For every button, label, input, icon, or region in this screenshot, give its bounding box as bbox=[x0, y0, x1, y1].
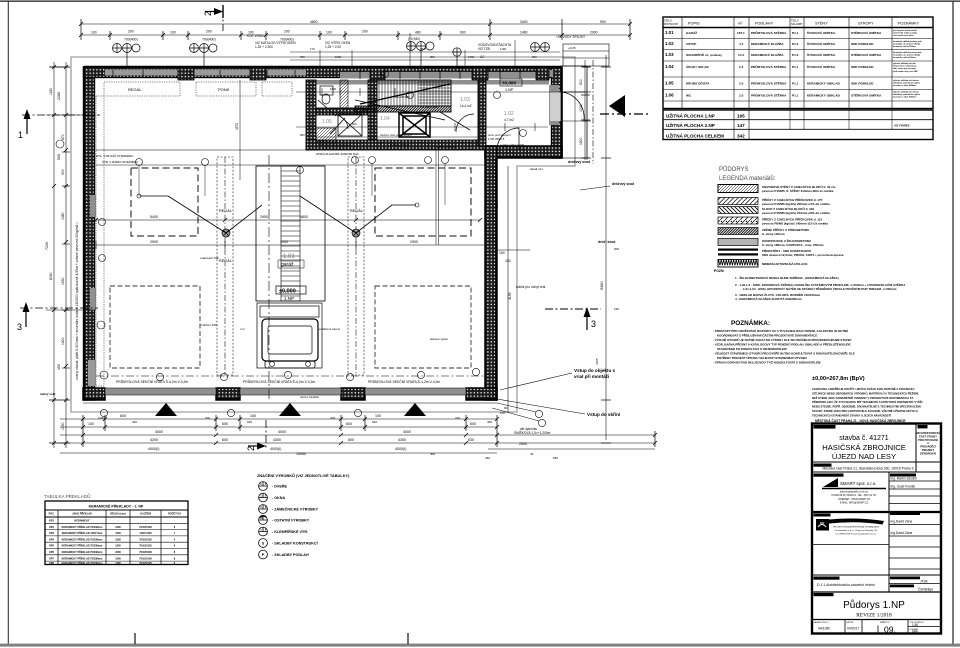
svg-text:14,4 m2: 14,4 m2 bbox=[460, 104, 472, 108]
slope lines to drain right bbox=[300, 196, 416, 233]
svg-text:700: 700 bbox=[455, 416, 460, 420]
svg-text:1.02: 1.02 bbox=[665, 41, 674, 46]
svg-text:950: 950 bbox=[553, 456, 558, 460]
section mark 1 left bbox=[18, 109, 100, 140]
svg-text:MINERÁLNÍ TEPELNÁ IZOLACE: MINERÁLNÍ TEPELNÁ IZOLACE bbox=[762, 261, 808, 266]
svg-text:1.03: 1.03 bbox=[460, 97, 470, 103]
svg-text:1.01: 1.01 bbox=[283, 254, 295, 260]
svg-text:460: 460 bbox=[485, 456, 490, 460]
svg-text:150: 150 bbox=[614, 307, 619, 311]
svg-text:1.02: 1.02 bbox=[504, 111, 514, 117]
svg-text:460: 460 bbox=[487, 420, 492, 424]
svg-text:UŽITNÁ PLOCHA 1.NP: UŽITNÁ PLOCHA 1.NP bbox=[666, 112, 715, 119]
svg-text:630: 630 bbox=[372, 420, 377, 424]
svg-text:1.04: 1.04 bbox=[380, 116, 390, 122]
svg-text:600: 600 bbox=[352, 122, 357, 126]
svg-text:úschovna kolys: úschovna kolys bbox=[436, 145, 457, 149]
svg-text:5400: 5400 bbox=[150, 215, 158, 219]
svg-text:700(400): 700(400) bbox=[124, 38, 138, 42]
legend texts bbox=[762, 184, 844, 266]
room label 1.01 garáž bbox=[283, 254, 295, 260]
interior wall between small rooms and stairs bbox=[368, 80, 377, 140]
svg-text:600: 600 bbox=[222, 438, 228, 442]
svg-text:4000(I): 4000(I) bbox=[148, 447, 159, 451]
staircase flight rail diagonal bbox=[360, 84, 450, 104]
right dimension vertical line 9360 bbox=[605, 55, 607, 440]
svg-text:2900: 2900 bbox=[410, 240, 418, 244]
svg-text:2500: 2500 bbox=[519, 442, 527, 446]
svg-text:SPRCHA, mytí pod stropem: SPRCHA, mytí pod stropem bbox=[318, 143, 350, 147]
svg-text:4200: 4200 bbox=[150, 438, 158, 442]
svg-text:výlevka, obklady stěn keram.: výlevka, obklady stěn keram. bbox=[893, 79, 920, 82]
garage door sill 1 bbox=[105, 388, 216, 395]
svg-text:1000: 1000 bbox=[115, 526, 121, 529]
svg-text:(+0,940): (+0,940) bbox=[408, 37, 420, 41]
entrance door opening white bbox=[550, 92, 561, 121]
top wall hatch piers between windows bbox=[370, 67, 385, 80]
section mark 2 top bbox=[203, 5, 223, 32]
svg-text:PODLAHY: PODLAHY bbox=[755, 22, 774, 26]
bottom wall pier 2 bbox=[216, 388, 240, 400]
svg-text:KERAMICKÝ: KERAMICKÝ bbox=[74, 520, 89, 523]
svg-text:SMART spol. s.r.o.: SMART spol. s.r.o. bbox=[840, 481, 876, 486]
svg-text:1,25 + 2,300: 1,25 + 2,300 bbox=[255, 45, 273, 49]
svg-text:2: 2 bbox=[203, 11, 213, 16]
svg-text:úschov. kolo pod stropem: úschov. kolo pod stropem bbox=[380, 133, 412, 137]
svg-text:870: 870 bbox=[61, 134, 65, 140]
svg-text:1190: 1190 bbox=[500, 47, 506, 51]
bottom wall pier 1 bbox=[83, 388, 105, 400]
svg-text:+ODVODY SPOJKY: +ODVODY SPOJKY bbox=[556, 35, 586, 39]
svg-text:ÚKLID / SKLAD: ÚKLID / SKLAD bbox=[686, 64, 709, 69]
floor drain left bbox=[222, 229, 230, 237]
axis dash-dot through tower bbox=[268, 155, 270, 400]
svg-text:SDK PODHLED: SDK PODHLED bbox=[851, 82, 874, 86]
svg-text:200: 200 bbox=[362, 30, 368, 34]
legend swatch 5 bbox=[718, 228, 758, 235]
svg-text:SDK PODHLED: SDK PODHLED bbox=[851, 65, 874, 69]
svg-text:100: 100 bbox=[250, 414, 256, 418]
bottom wall pier 3 bbox=[341, 388, 365, 400]
staircase upper flight treads bbox=[379, 80, 451, 106]
strip interior dimension crossing lines bbox=[296, 91, 562, 93]
svg-text:KP2: KP2 bbox=[49, 526, 54, 529]
svg-text:1900: 1900 bbox=[335, 55, 342, 59]
interior vertical dim x240 bbox=[239, 80, 241, 180]
svg-text:70/125/100: 70/125/100 bbox=[139, 557, 152, 560]
door arc 1.06 bbox=[334, 115, 348, 129]
svg-text:pevnost P15/M5 (kg/čtv) 210mm+: pevnost P15/M5 (kg/čtv) 210mm+240+2x omí… bbox=[762, 211, 830, 215]
WC fixture bbox=[320, 86, 333, 95]
interior dimension line y245 bbox=[96, 244, 485, 246]
svg-text:REGÁL: REGÁL bbox=[350, 209, 363, 213]
section mark 2 bottom bbox=[246, 420, 266, 451]
svg-text:70/125/100: 70/125/100 bbox=[139, 526, 152, 529]
svg-text:600: 600 bbox=[470, 422, 476, 426]
svg-text:pevnost P8/M5 (kg/čtv) 140mm+1: pevnost P8/M5 (kg/čtv) 140mm+115+2x omít… bbox=[762, 221, 828, 225]
svg-text:- PROSTUPY PRO ODVĚTRÁNÍ, ROZV: - PROSTUPY PRO ODVĚTRÁNÍ, ROZVODY SV A T… bbox=[713, 328, 848, 333]
interior wall between 1.05 and 1.06 bbox=[316, 108, 368, 115]
leader polylines inside garage bbox=[139, 165, 205, 196]
svg-text:100: 100 bbox=[170, 31, 176, 35]
svg-text:40: 40 bbox=[530, 452, 534, 456]
svg-text:DATUM: DATUM bbox=[846, 621, 854, 624]
svg-text:4570: 4570 bbox=[235, 123, 239, 130]
svg-text:ŠTUKOVÁ OMÍTKA: ŠTUKOVÁ OMÍTKA bbox=[807, 64, 836, 69]
svg-text:4300: 4300 bbox=[273, 438, 281, 442]
svg-text:KP6: KP6 bbox=[49, 551, 54, 554]
floor drain right bbox=[352, 229, 360, 237]
svg-text:21/16/1+ 255/2,5: 21/16/1+ 255/2,5 bbox=[390, 143, 410, 147]
svg-text:4,7 m2: 4,7 m2 bbox=[504, 118, 514, 122]
svg-text:POZN:: POZN: bbox=[714, 269, 725, 273]
svg-text:4000: 4000 bbox=[403, 430, 411, 434]
svg-text:1000: 1000 bbox=[579, 104, 583, 112]
tower (hose drying) outline bbox=[256, 166, 325, 301]
svg-text:1250: 1250 bbox=[115, 532, 121, 535]
svg-text:Osvoboditelů a d.s.r. Úvaly, k: Osvoboditelů a d.s.r. Úvaly, kpt.Nálepky… bbox=[835, 529, 879, 532]
svg-text:330: 330 bbox=[132, 420, 137, 424]
svg-text:1 - ŽELEZOBETONOVÁ DESKA BUDE: 1 - ŽELEZOBETONOVÁ DESKA BUDE SNÍŽENA - … bbox=[735, 275, 839, 280]
bottom page shadow bar bbox=[0, 644, 960, 647]
top dimension chain 2 bbox=[81, 34, 630, 36]
svg-text:PRŮMYSLOVÁ SEKČNÍ VRATA Š-4,2m: PRŮMYSLOVÁ SEKČNÍ VRATA Š-4,2m V-4,2m bbox=[368, 379, 440, 384]
svg-text:PRŮMYSLOVÁ STĚRKA: PRŮMYSLOVÁ STĚRKA bbox=[751, 64, 787, 69]
svg-text:9360: 9360 bbox=[600, 282, 604, 290]
svg-text:sklopné vpusti: sklopné vpusti bbox=[430, 337, 448, 341]
svg-text:4000(I): 4000(I) bbox=[395, 447, 406, 451]
svg-text:1650: 1650 bbox=[61, 277, 65, 285]
drain channel strip right bbox=[348, 157, 364, 375]
svg-text:odvod. kanálek: odvod. kanálek bbox=[300, 395, 319, 399]
svg-text:2,0: 2,0 bbox=[739, 94, 744, 98]
svg-text:±0,000: ±0,000 bbox=[279, 289, 296, 295]
svg-text:KERAMICKÝ PŘEKLAD 70/238mm: KERAMICKÝ PŘEKLAD 70/238mm bbox=[62, 526, 103, 529]
svg-text:1180: 1180 bbox=[49, 88, 53, 95]
svg-text:REGÁL: REGÁL bbox=[128, 87, 142, 92]
svg-text:POZ.: POZ. bbox=[49, 513, 55, 516]
gray lining inside right wall of entrance bbox=[549, 85, 559, 125]
svg-text:STĚRKOVÁ OMÍTKA: STĚRKOVÁ OMÍTKA bbox=[851, 93, 882, 98]
svg-text:umyvadla v-2 a prostor dlažby: umyvadla v-2 a prostor dlažby bbox=[893, 54, 921, 57]
svg-text:investora v. alční 2000mm: investora v. alční 2000mm bbox=[893, 84, 917, 87]
parking zone dashed rect top-right bbox=[375, 168, 471, 236]
svg-text:TABULKA PŘEKLADŮ:: TABULKA PŘEKLADŮ: bbox=[44, 492, 92, 499]
svg-text:STROPY: STROPY bbox=[858, 22, 874, 26]
left dimension chain 2 bbox=[65, 62, 67, 448]
section mark 3 left bbox=[17, 302, 98, 332]
svg-text:POZNÁMKA:: POZNÁMKA: bbox=[731, 318, 770, 327]
svg-text:3400: 3400 bbox=[520, 20, 528, 24]
svg-text:PRŮMYSLOVÁ STĚRKA: PRŮMYSLOVÁ STĚRKA bbox=[751, 93, 787, 98]
svg-text:P1.1: P1.1 bbox=[792, 31, 799, 35]
svg-text:PONK: PONK bbox=[218, 87, 230, 92]
SMART logo bbox=[823, 478, 838, 487]
svg-text:1: 1 bbox=[18, 130, 23, 140]
svg-text:P1.3: P1.3 bbox=[792, 53, 799, 57]
leader from circles to doors bbox=[492, 403, 539, 421]
legend swatch 8 bbox=[718, 260, 758, 268]
svg-text:SDK PODHLED: SDK PODHLED bbox=[851, 42, 874, 46]
svg-text:SDK deska tl.12,5mm, PROFIL CW: SDK deska tl.12,5mm, PROFIL CW75 + povrc… bbox=[762, 253, 844, 257]
svg-text:2900: 2900 bbox=[150, 240, 158, 244]
svg-text:4000: 4000 bbox=[278, 430, 286, 434]
svg-text:stěn odolné proti otěru: stěn odolné proti otěru bbox=[893, 34, 914, 37]
second roof line top-right bbox=[560, 165, 575, 167]
interior wall between stairs and 1.02 bbox=[478, 80, 486, 146]
svg-text:KP7: KP7 bbox=[49, 557, 54, 560]
svg-text:D.1.1 Architektonicko-stavební: D.1.1 Architektonicko-stavební řešení bbox=[817, 583, 875, 587]
svg-text:KP5: KP5 bbox=[49, 545, 54, 548]
svg-text:15060: 15060 bbox=[296, 452, 306, 456]
svg-text:KP3: KP3 bbox=[49, 532, 54, 535]
svg-text:4155: 4155 bbox=[508, 292, 512, 300]
svg-text:1380: 1380 bbox=[61, 212, 65, 220]
svg-text:1:50: 1:50 bbox=[912, 623, 918, 627]
interior dimension line y220 bbox=[96, 219, 480, 221]
diagonal door-leaf lines in strip bbox=[318, 100, 470, 134]
svg-text:480: 480 bbox=[415, 31, 421, 35]
svg-text:1.05: 1.05 bbox=[322, 119, 332, 125]
tick diagonal marks top bbox=[79, 22, 632, 37]
garage door triangle 2 bbox=[279, 403, 301, 416]
svg-text:Městská část Praha 21, Starokl: Městská část Praha 21, Staroklánovická 2… bbox=[822, 467, 913, 471]
svg-text:ETA. VYB.NÁČ INTERIÉRU: ETA. VYB.NÁČ INTERIÉRU bbox=[96, 153, 133, 158]
svg-text:1250: 1250 bbox=[115, 562, 121, 565]
svg-text:POČET KS: POČET KS bbox=[168, 513, 181, 516]
svg-text:keramický obklad prostoru jade: keramický obklad prostoru jade bbox=[893, 40, 921, 43]
y220 chain ticks bbox=[94, 218, 482, 222]
thin line below bottom wall bbox=[83, 402, 497, 404]
svg-text:keramický sokl v=100mm: keramický sokl v=100mm bbox=[893, 46, 916, 48]
svg-text:14,4: 14,4 bbox=[738, 53, 744, 57]
svg-text:pevnost P15/M5, tl. STĚNY 310m: pevnost P15/M5, tl. STĚNY 310mm+300+1x o… bbox=[762, 188, 834, 193]
bottom wall pier 4 bbox=[466, 388, 497, 400]
svg-text:500: 500 bbox=[57, 154, 61, 160]
svg-text:ULOŽENÍ: ULOŽENÍ bbox=[140, 513, 151, 516]
svg-text:vedení VZT, malba a nátěry: vedení VZT, malba a nátěry bbox=[893, 32, 918, 35]
legend swatch 1 bbox=[718, 185, 758, 193]
svg-text:umyvadla v-2 a prostor dlažby: umyvadla v-2 a prostor dlažby bbox=[893, 43, 921, 46]
dash-dot line above bottom wall bbox=[96, 375, 485, 377]
svg-text:soklík pro úchyt vrat: soklík pro úchyt vrat bbox=[516, 285, 545, 289]
svg-text:dešť. svod: dešť. svod bbox=[598, 240, 615, 244]
svg-text:195: 195 bbox=[737, 114, 745, 119]
room labels in strip bbox=[322, 97, 514, 125]
garage door triangle 1 bbox=[155, 403, 177, 416]
svg-text:4000(I): 4000(I) bbox=[270, 447, 281, 451]
gray service blocks on left wall bbox=[90, 195, 96, 217]
svg-text:70/125/150: 70/125/150 bbox=[139, 538, 152, 541]
svg-text:700: 700 bbox=[330, 416, 335, 420]
legend swatch 2 bbox=[718, 198, 758, 205]
page border frame bbox=[0, 0, 960, 2]
svg-text:Ing.David Zána: Ing.David Zána bbox=[891, 531, 913, 535]
svg-text:1600: 1600 bbox=[330, 87, 337, 91]
svg-text:2000: 2000 bbox=[590, 31, 598, 35]
svg-text:KERAMICKÝ PŘEKLAD 70/238mm: KERAMICKÝ PŘEKLAD 70/238mm bbox=[62, 551, 103, 554]
tiny texts above top wall bbox=[255, 37, 489, 73]
svg-text:4 - KERAMICKÁ DLAŽBA SLINUTÁ 3: 4 - KERAMICKÁ DLAŽBA SLINUTÁ 300/300mm bbox=[735, 296, 802, 301]
svg-text:KCE: KCE bbox=[482, 69, 489, 73]
shaft with X bracing (1.04) bbox=[399, 113, 430, 137]
svg-text:KERAMICKÁ DLAŽBA: KERAMICKÁ DLAŽBA bbox=[751, 41, 784, 46]
svg-text:1.06: 1.06 bbox=[665, 93, 674, 98]
svg-text:PROJEKTOVÁ A INŽENÝRSKÁ ORGANI: PROJEKTOVÁ A INŽENÝRSKÁ ORGANIZACE bbox=[833, 526, 880, 529]
svg-text:150: 150 bbox=[499, 251, 505, 255]
svg-text:žlab, otvory pro prostupy: žlab, otvory pro prostupy bbox=[893, 67, 917, 70]
svg-text:3: 3 bbox=[17, 322, 22, 332]
svg-text:keramický sokl v=100mm: keramický sokl v=100mm bbox=[893, 57, 916, 59]
svg-text:PRŮMYSLOVÁ SEKČNÍ VRATA Š-4,2m: PRŮMYSLOVÁ SEKČNÍ VRATA Š-4,2m V-4,2m bbox=[116, 379, 188, 384]
svg-text:MĚSTSKÁ ČÁST PRAHA 21 - NOVÁ H: MĚSTSKÁ ČÁST PRAHA 21 - NOVÁ HASIČSKÁ ZB… bbox=[815, 418, 906, 423]
svg-text:investora v. alční 2000mm: investora v. alční 2000mm bbox=[893, 96, 917, 99]
svg-text:Půdorys 1.NP: Půdorys 1.NP bbox=[843, 599, 905, 611]
svg-text:vrial při montáži: vrial při montáži bbox=[574, 374, 609, 379]
svg-text:rozšíření 30R: rozšíření 30R bbox=[200, 323, 217, 327]
door arc 1.02 to garage bbox=[497, 128, 519, 150]
svg-text:200: 200 bbox=[284, 30, 290, 34]
tower ladder bbox=[281, 166, 300, 301]
svg-text:keramický obklad prostoru jade: keramický obklad prostoru jade bbox=[893, 51, 921, 54]
svg-text:200: 200 bbox=[206, 30, 212, 34]
svg-text:Ing. Josef Froněk: Ing. Josef Froněk bbox=[891, 485, 916, 489]
garage door sill 3 bbox=[365, 388, 466, 395]
drawing name bbox=[814, 593, 834, 596]
interior strip bottom wall bbox=[306, 140, 485, 150]
svg-text:ČS prostoru za výlevkový: ČS prostoru za výlevkový bbox=[893, 65, 917, 68]
svg-text:- OKNA: - OKNA bbox=[272, 496, 285, 500]
legend swatch 6 bbox=[718, 239, 758, 246]
svg-text:ČSNB/Bpv: ČSNB/Bpv bbox=[918, 587, 934, 592]
svg-text:DÉLKA (mm): DÉLKA (mm) bbox=[110, 513, 125, 516]
left exterior wall bbox=[84, 67, 95, 400]
svg-text:GARÁŽ: GARÁŽ bbox=[686, 30, 697, 35]
roof outline (gray) around building bbox=[71, 57, 575, 412]
svg-text:REGÁL: REGÁL bbox=[219, 209, 232, 213]
svg-text:±0,00=267,8m (BpV): ±0,00=267,8m (BpV) bbox=[812, 376, 865, 382]
svg-text:PRŮMYSLOVÁ SEKČNÍ VRATA Š-4,2m: PRŮMYSLOVÁ SEKČNÍ VRATA Š-4,2m V-4,2m bbox=[243, 379, 315, 384]
svg-text:stavba č. 41271: stavba č. 41271 bbox=[839, 435, 889, 442]
svg-text:4800: 4800 bbox=[300, 215, 308, 219]
svg-text:115/71/100: 115/71/100 bbox=[139, 532, 152, 535]
svg-text:900: 900 bbox=[532, 55, 537, 59]
svg-text:1.01: 1.01 bbox=[665, 30, 674, 35]
svg-text:1460: 1460 bbox=[520, 31, 528, 35]
svg-text:4300: 4300 bbox=[398, 438, 406, 442]
svg-text:70/125/125: 70/125/125 bbox=[139, 545, 152, 548]
svg-text:1000: 1000 bbox=[115, 557, 121, 560]
bottom right 2500 dim bbox=[488, 448, 655, 450]
svg-text:www.smartprojekt.cz tel:xxx: www.smartprojekt.cz tel:xxx bbox=[840, 491, 869, 494]
svg-text:- KLEMPÍŘSKÉ VÝR.: - KLEMPÍŘSKÉ VÝR. bbox=[272, 529, 308, 534]
svg-text:1.NP: 1.NP bbox=[284, 296, 294, 301]
svg-text:KP4: KP4 bbox=[49, 538, 54, 541]
svg-text:700(400): 700(400) bbox=[202, 38, 216, 42]
svg-text:A: A bbox=[927, 441, 929, 445]
svg-text:70/125/200: 70/125/200 bbox=[139, 551, 152, 554]
bottom chain slashes bbox=[81, 417, 657, 445]
svg-text:2280: 2280 bbox=[57, 92, 61, 100]
fire truck bbox=[257, 303, 322, 368]
svg-text:UŽITNÁ PLOCHA 2.NP: UŽITNÁ PLOCHA 2.NP bbox=[666, 121, 715, 128]
rack dotted strip along left wall bbox=[96, 96, 104, 386]
svg-text:- ZÁMEČNICKÉ VÝROBKY: - ZÁMEČNICKÉ VÝROBKY bbox=[272, 507, 319, 512]
svg-text:pod stropem volně vedené: pod stropem volně vedené bbox=[893, 29, 917, 32]
svg-text:Ing. Martin Zásobil: Ing. Martin Zásobil bbox=[891, 477, 918, 481]
svg-text:LEGENDA materiálů:: LEGENDA materiálů: bbox=[719, 175, 776, 182]
svg-text:ÚC: ÚC bbox=[480, 54, 485, 59]
svg-text:KERAMICKÝ PŘEKLAD 70/238mm: KERAMICKÝ PŘEKLAD 70/238mm bbox=[62, 557, 103, 560]
svg-text:1400: 1400 bbox=[61, 337, 65, 345]
rack dotted rects along top wall bbox=[104, 82, 180, 96]
right side small dims near garage wall bbox=[507, 166, 509, 412]
svg-text:600: 600 bbox=[222, 422, 228, 426]
svg-text:70/125/125: 70/125/125 bbox=[139, 562, 152, 565]
svg-text:ZAKÁZK.ČÍSLO: ZAKÁZK.ČÍSLO bbox=[814, 621, 829, 624]
svg-text:SPRCHA HRUBÁ 30/60/60 žlab: SPRCHA HRUBÁ 30/60/60 žlab bbox=[316, 152, 359, 156]
small circled marks around doors bbox=[56, 140, 546, 427]
garage door triangle 3 bbox=[404, 403, 426, 416]
svg-text:MÍSTNOSTI: MÍSTNOSTI bbox=[664, 22, 678, 26]
svg-text:- SKLADBY KONSTRUKCÍ: - SKLADBY KONSTRUKCÍ bbox=[272, 541, 319, 546]
svg-text:před malbou krýt, více SDK: před malbou krýt, více SDK bbox=[893, 70, 918, 73]
svg-text:VIZ SKLADBA: VIZ SKLADBA bbox=[420, 105, 438, 109]
misc tiny dimension smudges bbox=[96, 143, 619, 460]
svg-text:HRUBÁ OČISTA: HRUBÁ OČISTA bbox=[686, 81, 710, 86]
svg-text:- OSTATNÍ VÝROBKY: - OSTATNÍ VÝROBKY bbox=[272, 518, 310, 523]
svg-text:09.: 09. bbox=[884, 625, 896, 635]
svg-text:nosný obvod. plášť tl.300mm +: nosný obvod. plášť tl.300mm + minerální … bbox=[75, 222, 79, 380]
heavy outer wall face lines bbox=[84, 67, 562, 400]
svg-text:18x167/280: 18x167/280 bbox=[395, 95, 410, 99]
svg-text:STĚRKOVÁ OMÍTKA: STĚRKOVÁ OMÍTKA bbox=[851, 52, 882, 57]
svg-text:výlevka, obklady stěn keram.: výlevka, obklady stěn keram. bbox=[893, 91, 920, 94]
svg-text:2,4: 2,4 bbox=[739, 65, 744, 69]
legend swatch 7 bbox=[718, 249, 758, 256]
svg-text:SCHODIŠTĚ vč. podesty: SCHODIŠTĚ vč. podesty bbox=[686, 52, 722, 57]
parking zone dashed rect top-left bbox=[131, 168, 198, 236]
svg-text:STANOVENO PO KONZULTACI S OB: STANOVENO PO KONZULTACI S OBJEDNATELEM bbox=[717, 347, 787, 351]
svg-text:ZNAČENÍ VÝROBKŮ (VIZ JEDNOTLIV: ZNAČENÍ VÝROBKŮ (VIZ JEDNOTLIVÉ TABULKY) bbox=[257, 473, 350, 478]
tiny text smudges in strip bbox=[300, 87, 511, 147]
svg-text:REGÁL: REGÁL bbox=[219, 259, 232, 263]
thin line across garage y165 bbox=[96, 164, 485, 166]
svg-text:P1.1: P1.1 bbox=[792, 65, 799, 69]
svg-text:vsakovací žlab: vsakovací žlab bbox=[200, 256, 219, 260]
svg-text:VSTUP: VSTUP bbox=[686, 42, 696, 46]
svg-text:HASIČSKÁ ZBROJNICE: HASIČSKÁ ZBROJNICE bbox=[822, 443, 906, 452]
top dimension chain 1 bbox=[81, 23, 630, 25]
svg-text:SMÍŠKOVÁ 1,5×+1,200m: SMÍŠKOVÁ 1,5×+1,200m bbox=[514, 430, 551, 435]
svg-text:1.04: 1.04 bbox=[665, 64, 674, 69]
svg-text:900: 900 bbox=[600, 20, 606, 24]
texts above top-left wall bbox=[247, 34, 586, 51]
svg-text:STĚNY: STĚNY bbox=[815, 21, 828, 26]
svg-text:4,7: 4,7 bbox=[739, 42, 744, 46]
svg-text:8060: 8060 bbox=[49, 272, 53, 280]
short dim chains above strip bbox=[290, 51, 560, 53]
svg-text:+0,05: +0,05 bbox=[568, 46, 576, 50]
left dimension chain 1 bbox=[53, 62, 55, 448]
fixtures circled symbol groups on top wall bbox=[113, 42, 550, 68]
exterior entrance steps top-right bbox=[563, 44, 609, 66]
svg-text:1,25 + 2,00: 1,25 + 2,00 bbox=[325, 45, 341, 49]
svg-text:1250: 1250 bbox=[115, 545, 121, 548]
svg-text:2950: 2950 bbox=[260, 215, 268, 219]
svg-text:600: 600 bbox=[346, 422, 352, 426]
svg-text:- DVEŘE: - DVEŘE bbox=[272, 484, 287, 489]
